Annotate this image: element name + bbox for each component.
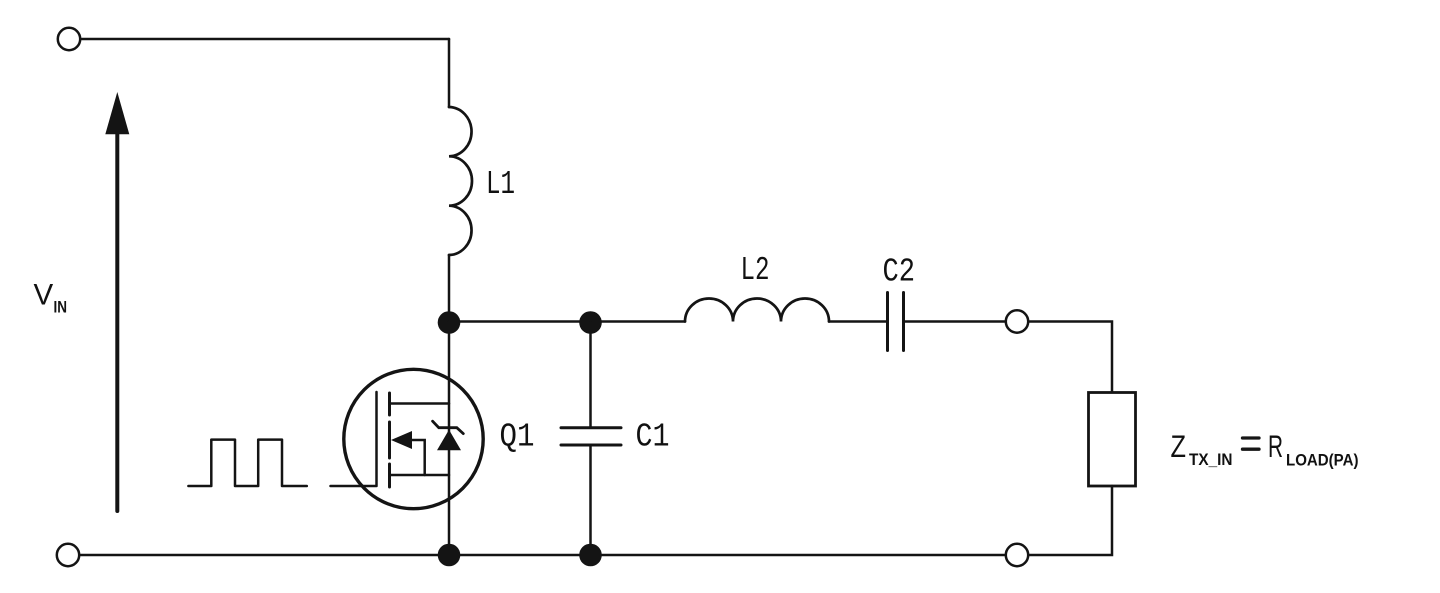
- wire L2 to C2: [829, 320, 886, 323]
- wire terminal to load: [1029, 322, 1113, 393]
- svg-text:L1: L1: [486, 166, 515, 204]
- inductor L2: [685, 299, 829, 322]
- capacitor C1: [589, 322, 592, 427]
- label Z_TX_IN = R_LOAD(PA): [1171, 428, 1359, 470]
- svg-text:L2: L2: [741, 252, 770, 290]
- inductor L1: [449, 107, 472, 255]
- svg-text:Q1: Q1: [500, 418, 535, 456]
- svg-text:IN: IN: [54, 298, 68, 317]
- node B (C1 top): [579, 311, 602, 334]
- wire top rail: [81, 38, 450, 41]
- wire L1 to node: [448, 255, 451, 322]
- svg-text:V: V: [34, 279, 54, 312]
- transistor Q1 (N-MOSFET with body diode): [344, 369, 483, 508]
- terminal (input -) bottom-left: [57, 544, 79, 566]
- Q1 body arrow: [391, 431, 412, 449]
- Q1 body diode (zener): [437, 430, 461, 450]
- terminal (output +): [1006, 310, 1028, 332]
- Q1 drain-source vertical wire: [448, 322, 451, 555]
- label V_IN: [34, 279, 68, 317]
- wire gate drive to Q1 gate: [331, 392, 377, 486]
- node A (drain node): [438, 311, 461, 334]
- svg-text:LOAD(PA): LOAD(PA): [1286, 450, 1359, 469]
- wire top to L1: [448, 39, 451, 107]
- resistor R_LOAD: [1089, 393, 1136, 487]
- wire bottom rail: [80, 554, 1006, 557]
- Q1 channel bar segments: [388, 393, 391, 415]
- svg-text:C2: C2: [883, 253, 916, 291]
- wire C2 to output terminal: [905, 320, 1006, 323]
- wire middle rail: [449, 320, 685, 323]
- node D (C1 bottom): [579, 544, 602, 567]
- svg-text:TX_IN: TX_IN: [1189, 450, 1233, 469]
- V_IN source arrow: [115, 134, 119, 511]
- wire load to bottom rail: [1029, 486, 1113, 555]
- terminal (input +) top-left: [58, 28, 80, 50]
- capacitor C2: [886, 293, 889, 351]
- gate drive square wave: [188, 440, 306, 486]
- node C (source bottom): [438, 544, 461, 567]
- svg-text:C1: C1: [636, 418, 670, 456]
- svg-text:R: R: [1268, 428, 1283, 464]
- Q1 source stub: [391, 474, 450, 477]
- Q1 drain stub: [391, 402, 450, 405]
- terminal (output -): [1006, 544, 1028, 566]
- svg-text:Z: Z: [1171, 428, 1187, 464]
